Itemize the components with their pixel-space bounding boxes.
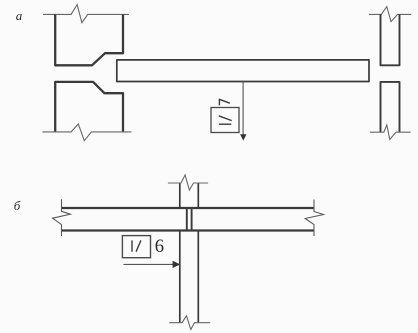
digit 1 (fig b) [131,240,133,251]
beam break right (fig b) [305,200,323,237]
column break line bottom (fig b) [169,316,210,330]
svg-text:б: б [14,198,21,213]
arrowhead (fig b) [173,261,181,268]
break line top-right [369,7,411,22]
column lower segment (fig b) [180,231,199,322]
column section bottom-left [55,82,123,132]
break line bottom-right [370,125,411,139]
break line top-left [43,5,129,23]
break line bottom-left [42,124,131,141]
rotated digit 1 [219,123,231,125]
beam (fig a) [117,60,369,82]
column flange bottom-right [381,82,400,132]
column flange top-right [381,14,400,65]
leader line (fig b) [123,263,173,265]
rotated slash [219,116,232,121]
column upper segment (fig b) [180,183,199,207]
svg-text:6: 6 [155,237,164,257]
weld label box (fig b) [122,236,150,258]
column section top-left [55,14,123,65]
beam break left (fig b) [53,199,71,236]
slash (fig b) [136,240,141,251]
weld label box (fig a) [211,108,239,133]
arrowhead (fig a) [240,134,246,140]
column break line top (fig b) [168,175,208,190]
beam flange lines (fig b) [62,208,315,231]
splice plates (fig b) [187,208,192,231]
svg-text:а: а [16,8,23,23]
rotated digit 7 [219,99,229,105]
leader line (fig a) [242,82,244,135]
